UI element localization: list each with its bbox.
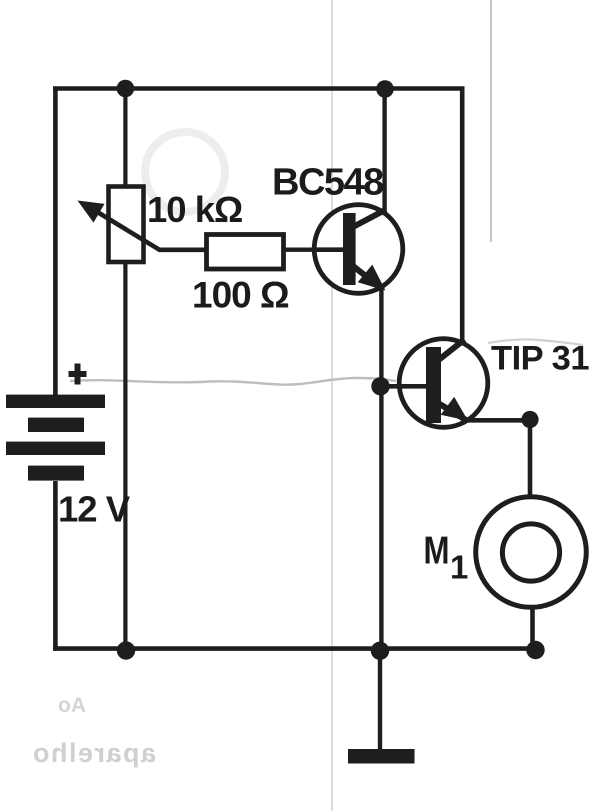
- node: top rail / BC548 collector junction: [376, 80, 394, 98]
- node: bottom rail / potentiometer junction: [117, 641, 135, 659]
- label M1: [424, 530, 469, 586]
- potentiometer wiper arrow: [78, 201, 207, 250]
- wire: top rail: [53, 86, 464, 91]
- label 10 kOhm: [147, 189, 242, 230]
- bleed-through text Ao aparelho: [31, 694, 156, 768]
- wire: motor top lead: [528, 419, 533, 498]
- wire: TIP31 emitter to motor node: [449, 418, 531, 423]
- svg-text:10 kΩ: 10 kΩ: [147, 189, 242, 230]
- resistor 100 ohm body: [207, 235, 284, 270]
- wire: potentiometer bottom leg: [123, 261, 127, 650]
- label 12 V: [58, 489, 131, 530]
- node: TIP31 base junction: [371, 377, 389, 395]
- transistor Q2 TIP31: [399, 339, 488, 428]
- wire: right rail (top rail to TIP31 collector): [460, 87, 465, 342]
- wire: ground stem: [378, 650, 382, 750]
- node: top rail / potentiometer junction: [117, 80, 135, 98]
- svg-text:12 V: 12 V: [58, 489, 131, 530]
- svg-text:Ao: Ao: [58, 694, 86, 717]
- potentiometer P1 10k body: [109, 187, 144, 263]
- label 100 Ohm: [192, 275, 289, 316]
- node: bottom rail / motor junction: [526, 641, 544, 659]
- wire: left rail upper (battery + to top rail): [53, 90, 58, 395]
- battery plus sign: [69, 364, 87, 385]
- svg-text:TIP 31: TIP 31: [491, 340, 589, 378]
- svg-text:BC548: BC548: [272, 162, 383, 204]
- svg-text:100 Ω: 100 Ω: [192, 275, 289, 316]
- bleed-through bulb ghost: [145, 132, 225, 212]
- node: bottom rail / ground junction: [371, 642, 389, 660]
- wire: potentiometer top leg: [123, 89, 127, 188]
- svg-text:1: 1: [450, 549, 468, 586]
- battery B1 12V: [6, 395, 105, 481]
- pencil streak above TIP 31 label: [488, 339, 583, 345]
- label BC548: [272, 162, 383, 204]
- wire: left rail lower (battery - to bottom rail): [53, 481, 58, 650]
- wire: bottom rail: [53, 646, 536, 651]
- svg-text:M: M: [424, 530, 450, 573]
- ground: [348, 749, 415, 764]
- label TIP 31: [491, 340, 589, 378]
- wire: BC548 emitter drop / TIP31 base column: [379, 289, 383, 650]
- scan fold line artifact: [331, 0, 333, 811]
- transistor Q1 BC548: [314, 205, 403, 294]
- wire: resistor to BC548 base: [283, 247, 345, 251]
- scan line artifact top right: [490, 0, 492, 242]
- wire: BC548 collector riser: [382, 89, 386, 211]
- wire: TIP31 base lead: [380, 384, 427, 389]
- motor M1: [476, 497, 587, 608]
- svg-text:aparelho: aparelho: [31, 738, 156, 768]
- node: TIP31 emitter / motor junction: [521, 411, 538, 428]
- pencil wavy line artifact: [70, 378, 396, 385]
- wire: motor bottom lead: [530, 606, 535, 650]
